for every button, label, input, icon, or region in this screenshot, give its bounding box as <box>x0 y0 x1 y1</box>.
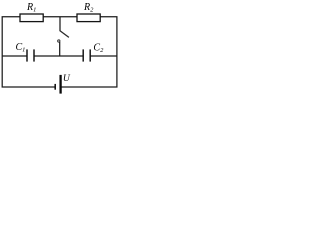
wire: middle rail right of C2 <box>90 55 117 57</box>
resistor R1 <box>20 14 43 22</box>
wire: top rail between R1 and R2 <box>43 16 77 18</box>
switch S blade <box>60 31 69 38</box>
svg-text:C1: C1 <box>16 42 26 54</box>
resistor R2 <box>77 14 100 22</box>
wire: middle rail left of C1 <box>2 55 27 57</box>
svg-text:R1: R1 <box>26 2 36 14</box>
battery U negative plate <box>54 84 56 90</box>
wire: middle rail C1 to C2 <box>34 55 83 57</box>
wire: top rail right segment + right border + bottom right <box>61 17 117 87</box>
wire: top rail left segment <box>2 17 55 87</box>
switch contact circle <box>58 40 60 42</box>
svg-text:U: U <box>63 73 71 84</box>
svg-text:C2: C2 <box>93 43 104 55</box>
svg-text:R2: R2 <box>83 2 94 14</box>
wire: switch upper stub <box>59 17 61 31</box>
capacitor C2 <box>82 49 84 61</box>
capacitor C1 <box>26 49 28 61</box>
wire: switch lower stub <box>59 42 61 56</box>
battery U positive plate <box>59 75 61 94</box>
